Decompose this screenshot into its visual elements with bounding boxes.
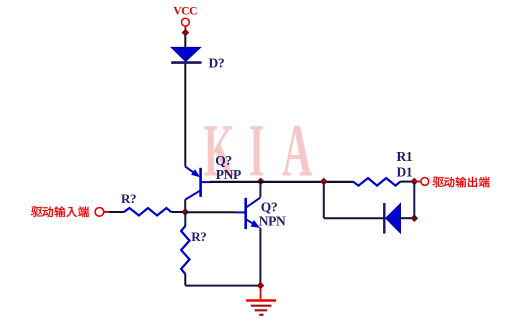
wire Q? NPN collector up [259,182,261,198]
power terminal VCC [182,18,190,29]
svg-text:R1: R1 [397,149,413,164]
diode D? [171,47,202,62]
svg-text:A: A [282,110,312,193]
junction node D (output) [410,178,418,186]
svg-text:VCC: VCC [173,5,197,17]
wire input terminal to R? [109,211,124,213]
wire node A to R? vertical [184,212,186,226]
wire R? to node A [171,211,185,213]
resistor R? (pull-down) [181,226,189,274]
svg-text:D1: D1 [397,164,413,179]
wire node C down [323,182,325,218]
net label 驱动输出端 (drive output) [432,177,489,188]
resistor R1 [353,178,400,186]
junction ground node [257,282,265,290]
output terminal [415,178,429,186]
watermark KIA [204,109,312,193]
svg-text:R?: R? [121,191,136,206]
junction node C (R1/D1 left) [320,178,328,186]
resistor R? (input) [124,208,171,216]
svg-text:R?: R? [191,229,206,244]
wire D? cathode to Q? PNP emitter [184,64,186,167]
svg-text:Q?: Q? [215,153,231,168]
svg-text:NPN: NPN [259,214,286,229]
junction node E (D1 anode corner) [410,214,418,222]
net label 驱动输入端 (drive input) [31,206,89,217]
wire D1 anode to node E [401,217,415,219]
wire to D1 cathode [324,217,384,219]
junction node A (input/base node) [181,208,189,216]
transistor Q? NPN [236,198,260,230]
junction VCC node [182,29,190,37]
wire R1 to output node [400,181,414,183]
wire VCC to D? anode [184,35,186,48]
wire Q? NPN emitter down [259,228,261,286]
transistor Q? PNP [185,166,211,199]
wire main horizontal net (PNP base to R1) [210,181,353,183]
svg-text:Q?: Q? [261,199,277,214]
wire PNP collector to input node [184,199,186,212]
svg-text:D?: D? [209,56,225,71]
junction node B (PNP base / NPN collector) [257,178,265,186]
input terminal [95,208,109,217]
wire R? vertical to bottom rail [184,274,187,286]
ground [246,288,276,315]
svg-text:PNP: PNP [216,167,241,182]
wire bottom rail [186,285,261,287]
wire node E up to output node [413,182,415,218]
diode D1 [384,203,400,234]
wire node A to Q? NPN base [186,211,236,213]
